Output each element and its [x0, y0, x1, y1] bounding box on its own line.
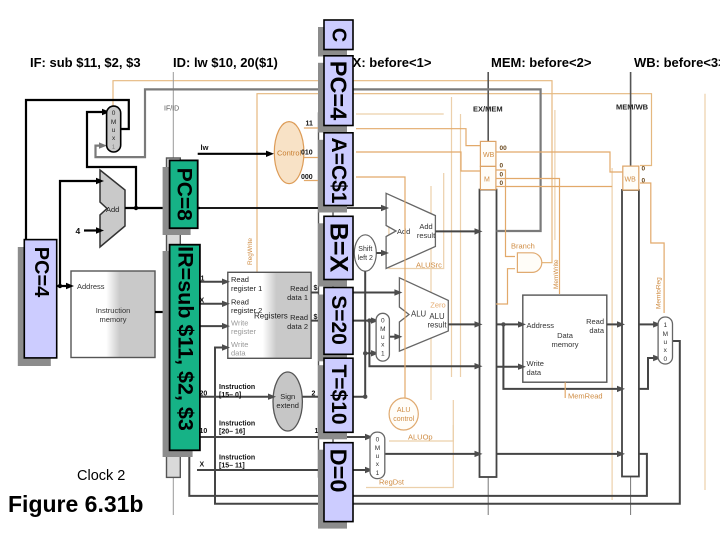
- svg-text:u: u: [376, 453, 380, 460]
- svg-text:MemtoReg: MemtoReg: [656, 277, 663, 309]
- box T=$10 shadow: [318, 365, 347, 439]
- svg-text:0: 0: [500, 180, 504, 187]
- svg-text:1: 1: [315, 428, 319, 435]
- arrow regnum into MEM/WB: [617, 451, 625, 457]
- clock line below MEM/WB: [630, 477, 632, 516]
- svg-text:PC=4: PC=4: [326, 61, 352, 120]
- svg-text:C: C: [328, 28, 350, 42]
- svg-text:010: 010: [301, 150, 313, 157]
- wire sign ext fork up to shift left 2 and mux1: [365, 271, 372, 397]
- instruction memory: [71, 271, 155, 358]
- ALU: [399, 278, 448, 351]
- svg-text:control: control: [393, 416, 414, 423]
- frame horizontal upper: [356, 113, 444, 115]
- wire data memory read data to MEM/WB: [607, 323, 618, 325]
- arrow shift out: [381, 250, 389, 256]
- wire write reg num EX/MEM to MEM/WB: [497, 453, 619, 455]
- box D=0 shadow: [318, 450, 347, 529]
- svg-text:RegWrite: RegWrite: [247, 238, 254, 265]
- register MEM/WB WB box: [623, 166, 639, 190]
- svg-text:Shift: Shift: [358, 246, 372, 253]
- wire instr 15-0 to sign extend: [181, 396, 269, 398]
- box B=X shadow: [318, 223, 347, 286]
- svg-text:lw: lw: [201, 143, 209, 152]
- svg-text:PC=4: PC=4: [30, 247, 52, 298]
- svg-text:0: 0: [642, 166, 646, 173]
- stage line WB top (before<3> wire): [630, 72, 632, 166]
- junction dots: [58, 206, 138, 288]
- wire RegWrite from MEM/WB back to Registers: [257, 94, 652, 272]
- svg-text:0: 0: [500, 172, 504, 179]
- svg-text:Instruction: Instruction: [219, 421, 255, 428]
- wire branch feedback from EX/MEM to PC mux1: [96, 89, 541, 231]
- svg-text:0: 0: [112, 110, 116, 117]
- box T=$10: [324, 358, 353, 432]
- svg-text:00: 00: [500, 145, 508, 152]
- wire PC loop: mux out, across top, down left into PC: [26, 100, 129, 240]
- svg-text:ALU: ALU: [397, 407, 411, 414]
- frame verticals EX region: [389, 97, 461, 377]
- box PC=4 left shadow: [18, 247, 51, 366]
- svg-text:MEM: before<2>: MEM: before<2>: [491, 55, 592, 70]
- svg-text:ID: lw $10, 20($1): ID: lw $10, 20($1): [173, 55, 278, 70]
- svg-text:PC=8: PC=8: [173, 168, 196, 221]
- arrow ALU upper: [394, 289, 402, 295]
- wire IM out: [155, 311, 167, 313]
- mux RegDst: [370, 432, 385, 479]
- svg-text:MEM/WB: MEM/WB: [616, 103, 649, 112]
- svg-text:memory: memory: [99, 315, 126, 324]
- wire MemtoReg: [640, 183, 664, 313]
- wire control EX out (000): [304, 177, 405, 398]
- svg-text:Add: Add: [106, 205, 119, 214]
- svg-text:Sign: Sign: [280, 392, 295, 401]
- box D=0: [324, 443, 353, 522]
- stage line MEM top (before<2> wire): [487, 72, 489, 141]
- box B=X: [324, 216, 353, 279]
- svg-text:IR=sub $11, $2, $3: IR=sub $11, $2, $3: [174, 246, 198, 431]
- svg-text:Branch: Branch: [511, 242, 535, 251]
- box PC=8 green: [170, 160, 198, 228]
- svg-text:Registers: Registers: [254, 312, 288, 321]
- clock line below EX/MEM: [487, 477, 489, 515]
- adder branch: [386, 193, 435, 268]
- svg-text:data: data: [527, 368, 542, 377]
- svg-text:Read: Read: [290, 313, 308, 322]
- wire PC to instruction memory address: [57, 285, 67, 287]
- wire PCSrc orange path from AND gate to PC mux: [113, 81, 552, 263]
- arrow sign extend in: [268, 394, 276, 400]
- svg-text:MemWrite: MemWrite: [553, 259, 560, 289]
- box IR green shadow: [163, 251, 193, 457]
- wire read data 2 to mux: [311, 320, 372, 322]
- svg-text:0: 0: [381, 318, 385, 325]
- svg-text:Data: Data: [557, 331, 574, 340]
- arrow read reg 2: [222, 301, 230, 307]
- wire B from EX/MEM to write data: [497, 366, 520, 368]
- wire ALUSrc mux out to ALU: [389, 336, 395, 338]
- wire shift left 2 out to branch add: [376, 252, 382, 254]
- svg-text:M: M: [484, 177, 490, 184]
- box PC=8 green shadow: [163, 167, 191, 235]
- svg-text:ALU: ALU: [411, 310, 427, 319]
- arrow mux1 ex: [371, 350, 379, 356]
- svg-text:memory: memory: [551, 340, 578, 349]
- box A=C$1: [324, 133, 353, 206]
- svg-text:RegDst: RegDst: [379, 478, 405, 487]
- svg-text:Instruction: Instruction: [219, 384, 255, 391]
- svg-text:Add: Add: [397, 227, 410, 236]
- frame vertical right edge: [704, 94, 706, 490]
- svg-text:$: $: [314, 285, 318, 292]
- svg-text:2: 2: [312, 391, 316, 398]
- wire control M out (010): [304, 152, 481, 171]
- arrow regdst mux0: [365, 434, 373, 440]
- wire RegDst mux out to EX/MEM: [385, 453, 476, 455]
- arrow ALU result into MEM/WB: [617, 386, 625, 392]
- wire B down to EX/MEM: [369, 321, 475, 367]
- wire sign extend out: [302, 396, 365, 398]
- registers: [228, 272, 311, 358]
- svg-text:WB: WB: [625, 177, 637, 184]
- register ID/EX bar: [319, 113, 334, 477]
- svg-text:register: register: [231, 327, 257, 336]
- shift left 2: [354, 235, 376, 271]
- svg-text:Read: Read: [586, 317, 604, 326]
- arrow into add upper: [96, 178, 104, 184]
- svg-text:WB: WB: [483, 152, 495, 159]
- arrow read reg 1: [222, 279, 230, 285]
- arrow ALU result into EX/MEM: [475, 321, 483, 327]
- wire lw to control: [198, 153, 266, 155]
- wire read register 2: [181, 303, 223, 305]
- wire M box MemWrite: [496, 179, 560, 295]
- svg-text:A=C$1: A=C$1: [327, 138, 350, 204]
- svg-text:Read: Read: [290, 284, 308, 293]
- arrow mux0 ex: [371, 317, 379, 323]
- box PC=4 r shadow: [318, 63, 347, 133]
- svg-text:B=X: B=X: [325, 223, 353, 273]
- arrow add result into EX/MEM: [475, 228, 483, 234]
- wire MEM/WB read data to final mux1: [639, 323, 654, 325]
- arrow ALU lower: [394, 334, 402, 340]
- svg-text:WB: before<3>: WB: before<3>: [634, 55, 720, 70]
- arrow write register: [222, 323, 230, 329]
- wire PC+4 to mux0: [87, 112, 136, 208]
- wire write reg num return to registers: [189, 326, 647, 496]
- svg-text:4: 4: [76, 226, 81, 236]
- svg-text:[15– 11]: [15– 11]: [219, 463, 245, 470]
- svg-text:M: M: [375, 445, 380, 452]
- svg-text:register 1: register 1: [231, 284, 262, 293]
- svg-text:000: 000: [301, 174, 313, 181]
- svg-text:data 1: data 1: [287, 293, 308, 302]
- arrow into DM write data: [518, 364, 526, 370]
- svg-text:$: $: [314, 314, 318, 321]
- svg-text:Write: Write: [527, 359, 544, 368]
- svg-text:ALUSrc: ALUSrc: [416, 261, 442, 270]
- svg-text:Read: Read: [231, 275, 249, 284]
- svg-text:D=0: D=0: [326, 449, 352, 493]
- svg-text:[20– 16]: [20– 16]: [219, 429, 245, 436]
- frame MEM verticals: [555, 110, 612, 500]
- box A=C$1 shadow: [318, 140, 347, 213]
- arrow regdst mux1: [365, 467, 373, 473]
- svg-text:Instruction: Instruction: [219, 455, 255, 462]
- mux MemtoReg: [658, 317, 672, 364]
- wire instr 15-11: [197, 469, 366, 471]
- data memory: [523, 295, 607, 382]
- wire control WB out (11): [304, 128, 481, 146]
- wire 4 to Add: [84, 229, 96, 231]
- wire final mux out writeback data: [215, 341, 680, 504]
- box C shadow: [318, 27, 347, 57]
- svg-text:data 2: data 2: [287, 322, 308, 331]
- wire read data 1 to ALU: [311, 292, 395, 294]
- svg-text:M: M: [380, 326, 385, 333]
- svg-text:u: u: [381, 334, 385, 341]
- arrow write data: [222, 344, 230, 350]
- register EX/MEM M box: [480, 166, 496, 189]
- svg-text:Add: Add: [419, 222, 432, 231]
- arrow branch add upper: [381, 205, 389, 211]
- svg-text:Control: Control: [277, 149, 302, 158]
- wire instr 20-16: [181, 436, 366, 438]
- frame vertical mid EX: [430, 186, 432, 400]
- register EX/MEM WB box: [480, 141, 496, 166]
- svg-text:1: 1: [663, 322, 667, 329]
- svg-text:data: data: [589, 326, 604, 335]
- svg-text:0: 0: [642, 178, 646, 185]
- control: [274, 122, 304, 184]
- svg-text:u: u: [112, 127, 116, 134]
- svg-text:Figure 6.31b: Figure 6.31b: [8, 491, 143, 517]
- svg-text:Address: Address: [527, 321, 555, 330]
- svg-text:T=$10: T=$10: [327, 364, 350, 424]
- arrowheads: [0, 0, 1, 1]
- svg-text:result: result: [417, 231, 436, 240]
- wire ALU result EX/MEM to data memory address: [497, 323, 520, 325]
- svg-text:0: 0: [500, 163, 504, 170]
- svg-text:extend: extend: [276, 401, 299, 410]
- arrow into DM address: [518, 321, 526, 327]
- wire ALU result down around to MEM/WB: [503, 324, 618, 389]
- AND gate branch: [517, 253, 541, 273]
- svg-text:MemRead: MemRead: [568, 392, 603, 401]
- svg-text:EX: before<1>: EX: before<1>: [344, 55, 432, 70]
- stage line IF/ID top: [172, 72, 174, 158]
- svg-text:Zero: Zero: [430, 301, 445, 310]
- svg-text:result: result: [427, 321, 447, 330]
- clock line below IF/ID: [172, 477, 174, 515]
- box C: [324, 20, 353, 50]
- box S=20: [324, 288, 353, 355]
- wire zero to AND: [496, 269, 515, 304]
- arrow B into EX/MEM: [475, 363, 483, 369]
- wire M box branch signal: [496, 170, 515, 257]
- wire MEM/WB ALU result to final mux0: [639, 358, 654, 389]
- svg-text:M: M: [111, 119, 116, 126]
- wire branch add result to EX/MEM: [435, 230, 475, 232]
- frame RegDst box: [366, 425, 453, 488]
- arrow final mux1: [653, 321, 661, 327]
- ALU control: [389, 398, 418, 430]
- wire ALU result to EX/MEM: [448, 323, 475, 325]
- svg-text:0: 0: [376, 437, 380, 444]
- sign extend: [273, 372, 302, 431]
- svg-text:[15– 0]: [15– 0]: [219, 392, 241, 399]
- arrow into add lower (4): [96, 227, 104, 233]
- svg-text:IF/ID: IF/ID: [164, 106, 179, 113]
- arrow branch into PC mux1: [99, 142, 107, 148]
- adder IF (PC+4): [100, 170, 125, 247]
- register EX/MEM bar: [480, 190, 497, 477]
- svg-text:EX/MEM: EX/MEM: [473, 105, 503, 114]
- svg-text:1: 1: [201, 276, 205, 283]
- svg-text:1: 1: [376, 470, 380, 477]
- svg-text:Address: Address: [77, 282, 105, 291]
- frame ALUOp box: [389, 400, 453, 441]
- wire PC+4 from IF/ID to branch adder: [200, 207, 319, 209]
- box IR green: [170, 245, 200, 451]
- svg-text:Clock 2: Clock 2: [77, 468, 125, 484]
- arrow into IM address: [66, 283, 74, 289]
- arrow regdst into EX/MEM: [475, 451, 483, 457]
- register MEM/WB bar: [622, 190, 639, 477]
- box PC=4 r: [324, 56, 353, 126]
- wire EX/MEM WB to MEM/WB WB (00): [496, 152, 623, 172]
- arrow into mux0: [102, 109, 110, 115]
- wire M box MemRead: [496, 187, 612, 399]
- svg-text:IF: sub $11, $2, $3: IF: sub $11, $2, $3: [30, 55, 141, 70]
- mux ALUSrc: [376, 313, 389, 361]
- svg-text:1: 1: [381, 351, 385, 358]
- svg-text:S=20: S=20: [327, 295, 350, 345]
- svg-text:left 2: left 2: [358, 255, 373, 262]
- svg-text:0: 0: [663, 356, 667, 363]
- svg-text:data: data: [231, 349, 246, 358]
- svg-text:M: M: [663, 331, 668, 338]
- register IF/ID bar: [167, 158, 181, 477]
- arrow into control: [266, 151, 274, 157]
- wire PC up to Add input: [60, 181, 96, 286]
- wire Add out to IF/ID: [125, 207, 200, 209]
- mux PC source: [107, 106, 121, 152]
- svg-text:u: u: [663, 339, 667, 346]
- svg-text:ALUOp: ALUOp: [408, 433, 433, 442]
- svg-text:X: X: [200, 462, 205, 469]
- svg-text:1: 1: [112, 144, 116, 151]
- box PC=4 left: [24, 240, 56, 358]
- svg-text:Instruction: Instruction: [96, 306, 131, 315]
- svg-text:11: 11: [306, 121, 314, 128]
- wire read register 1: [181, 281, 223, 283]
- box S=20 shadow: [318, 295, 347, 362]
- arrow read data into MEM/WB: [617, 321, 625, 327]
- arrow final mux0: [653, 355, 661, 361]
